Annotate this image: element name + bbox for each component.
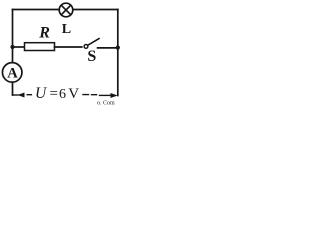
wire switch to right xyxy=(98,47,118,49)
svg-text:6: 6 xyxy=(59,87,66,102)
wire right side xyxy=(117,10,119,96)
wire middle left xyxy=(13,46,25,48)
switch S xyxy=(84,39,99,49)
svg-text:R: R xyxy=(38,24,50,41)
wire top-left segment xyxy=(13,9,60,11)
svg-text:U: U xyxy=(35,85,48,102)
wire bottom-left stub with voltage arrow left xyxy=(13,93,32,98)
wire top-right segment xyxy=(73,9,118,11)
svg-text:o. Com: o. Com xyxy=(97,101,115,107)
node junction left xyxy=(10,45,14,49)
wire bottom-right stub with voltage arrow right xyxy=(83,93,118,98)
svg-text:A: A xyxy=(7,65,18,81)
resistor R xyxy=(25,43,55,51)
svg-text:S: S xyxy=(87,48,96,65)
svg-text:L: L xyxy=(62,22,71,37)
lamp L xyxy=(59,3,73,17)
ammeter A xyxy=(2,63,22,83)
wire left side lower xyxy=(12,82,14,95)
wire left side upper xyxy=(12,10,14,63)
wire resistor to switch xyxy=(55,46,82,48)
node junction right xyxy=(116,46,120,50)
svg-text:V: V xyxy=(68,86,79,102)
svg-text:=: = xyxy=(50,86,58,102)
